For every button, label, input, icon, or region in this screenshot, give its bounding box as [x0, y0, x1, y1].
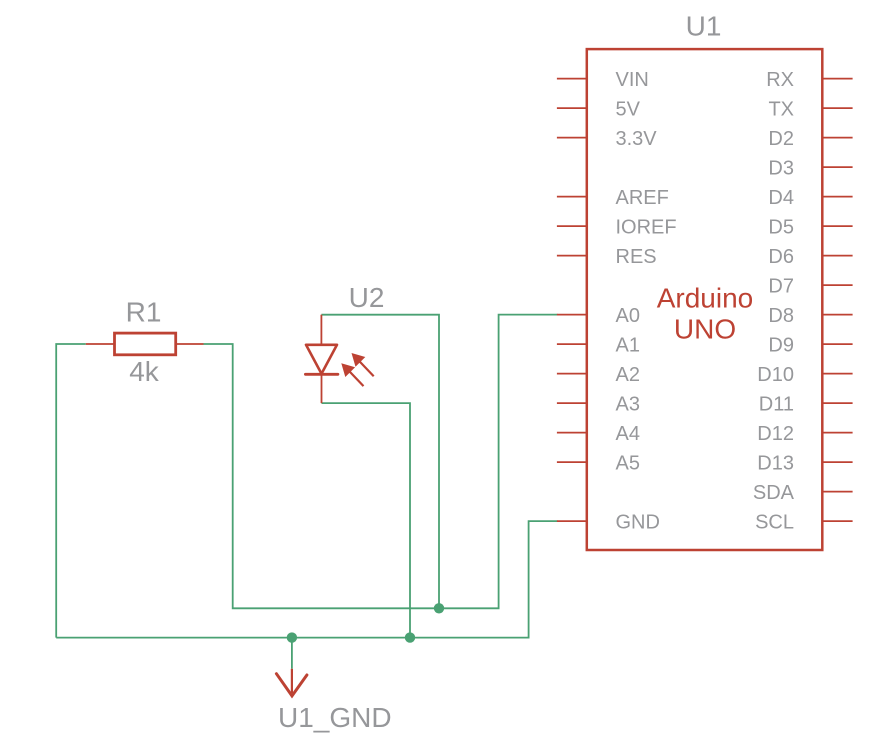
svg-text:R1: R1 — [126, 297, 162, 328]
left pin labels — [616, 69, 677, 534]
pin D5 — [822, 225, 852, 227]
svg-text:A2: A2 — [616, 364, 640, 386]
pin D10 — [822, 373, 852, 375]
svg-text:A3: A3 — [616, 393, 640, 415]
pin AREF — [557, 196, 587, 198]
svg-text:D4: D4 — [768, 187, 794, 209]
svg-text:SDA: SDA — [753, 482, 795, 504]
pin GND — [557, 520, 587, 522]
svg-text:3.3V: 3.3V — [616, 128, 658, 150]
svg-text:D7: D7 — [768, 275, 794, 297]
svg-text:A1: A1 — [616, 334, 640, 356]
svg-text:D6: D6 — [768, 246, 794, 268]
svg-text:D11: D11 — [759, 393, 794, 415]
svg-text:Arduino: Arduino — [657, 283, 754, 314]
svg-text:VIN: VIN — [616, 69, 649, 91]
pin A5 — [557, 461, 587, 463]
pin A4 — [557, 432, 587, 434]
pin IOREF — [557, 225, 587, 227]
svg-text:U1: U1 — [686, 11, 722, 42]
svg-text:D10: D10 — [757, 364, 794, 386]
light arrow 1 — [341, 363, 363, 386]
svg-text:D12: D12 — [757, 423, 794, 445]
junction dot A0 net — [434, 603, 444, 613]
svg-text:U1_GND: U1_GND — [278, 702, 392, 733]
pin RX — [822, 78, 852, 80]
pin D9 — [822, 343, 852, 345]
svg-text:IOREF: IOREF — [616, 216, 677, 238]
svg-text:A0: A0 — [616, 305, 640, 327]
pin SCL — [822, 520, 852, 522]
pin D6 — [822, 255, 852, 257]
pin D11 — [822, 402, 852, 404]
triangle — [306, 345, 337, 374]
right pin labels — [753, 69, 795, 534]
wire R1 right down to A0 bus — [204, 315, 558, 609]
cathode bar — [305, 373, 338, 376]
svg-text:D13: D13 — [757, 452, 794, 474]
pin TX — [822, 107, 852, 109]
pin D12 — [822, 432, 852, 434]
svg-text:RES: RES — [616, 246, 657, 268]
pin D8 — [822, 314, 852, 316]
anode lead — [320, 315, 322, 345]
svg-text:TX: TX — [768, 98, 794, 120]
svg-text:4k: 4k — [129, 356, 160, 387]
pin D13 — [822, 461, 852, 463]
svg-text:D8: D8 — [768, 305, 794, 327]
svg-text:RX: RX — [766, 69, 794, 91]
pin D4 — [822, 196, 852, 198]
svg-text:D3: D3 — [768, 157, 794, 179]
resistor R1 — [86, 333, 204, 355]
pin D2 — [822, 137, 852, 139]
wire LED cathode bottom — [322, 403, 411, 637]
wire bottom GND bus — [56, 521, 557, 638]
svg-text:U2: U2 — [349, 282, 385, 313]
svg-text:D2: D2 — [768, 128, 794, 150]
pin A3 — [557, 402, 587, 404]
pin 3.3V — [557, 137, 587, 139]
svg-text:AREF: AREF — [616, 187, 669, 209]
svg-text:5V: 5V — [616, 98, 641, 120]
pin A2 — [557, 373, 587, 375]
junction dot LED cathode / GND bus — [405, 632, 415, 642]
pin D7 — [822, 284, 852, 286]
pin D3 — [822, 166, 852, 168]
pin VIN — [557, 78, 587, 80]
cathode lead — [321, 374, 323, 403]
svg-text:D5: D5 — [768, 216, 794, 238]
svg-text:SCL: SCL — [755, 511, 794, 533]
pin A0 — [557, 314, 587, 316]
right pins — [822, 79, 852, 521]
ground U1_GND — [276, 669, 307, 696]
LED U2 (photodiode) — [305, 315, 373, 403]
junction dot ground stub — [287, 632, 297, 642]
wire LED anode top — [321, 315, 439, 609]
pin SDA — [822, 491, 852, 493]
pin A1 — [557, 343, 587, 345]
op box U1 Arduino UNO — [587, 49, 823, 550]
pin 5V — [557, 107, 587, 109]
wire R1 left to corner — [56, 344, 86, 638]
left pins — [557, 79, 587, 521]
svg-text:A4: A4 — [616, 423, 640, 445]
svg-text:GND: GND — [616, 511, 660, 533]
wire ground stub — [291, 638, 293, 669]
svg-text:D9: D9 — [768, 334, 794, 356]
light arrow 2 — [352, 353, 374, 376]
svg-text:A5: A5 — [616, 452, 640, 474]
svg-text:UNO: UNO — [674, 313, 736, 344]
pin RES — [557, 255, 587, 257]
